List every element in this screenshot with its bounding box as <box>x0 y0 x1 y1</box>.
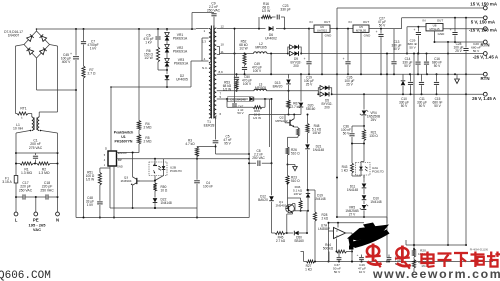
wire bias rail down <box>270 99 272 163</box>
wire L rail <box>15 152 17 165</box>
capacitor C16 <box>424 54 442 75</box>
diode D6 <box>265 26 277 40</box>
inductor L1 <box>13 117 41 131</box>
svg-text:UF4005: UF4005 <box>176 78 188 82</box>
svg-text:1/2 W: 1/2 W <box>223 88 231 92</box>
resistor R22 <box>412 257 429 272</box>
resistor R51 <box>86 168 102 185</box>
svg-text:1 kV: 1 kV <box>87 203 94 207</box>
svg-text:RT1: RT1 <box>20 107 26 111</box>
wire feedback bottom link <box>329 217 388 224</box>
resistor R27 <box>304 260 315 271</box>
svg-text:N.C.: N.C. <box>202 66 208 70</box>
capacitor C1 <box>16 139 58 164</box>
wire fb node <box>301 252 304 262</box>
svg-text:IN: IN <box>349 20 352 24</box>
svg-text:PI-4064-011106: PI-4064-011106 <box>470 248 489 252</box>
capacitor C15 <box>433 74 443 108</box>
capacitor C48 <box>86 185 103 219</box>
terminal 5V <box>471 16 496 24</box>
svg-text:2N5401: 2N5401 <box>276 203 287 207</box>
wire U2B led diag <box>154 176 164 182</box>
svg-text:1N4148: 1N4148 <box>347 188 358 192</box>
svg-text:D3 1N4148: D3 1N4148 <box>230 98 246 102</box>
svg-text:2.7 Ω: 2.7 Ω <box>88 72 96 76</box>
svg-text:8,9: 8,9 <box>219 70 224 74</box>
wire U5 gnd <box>360 32 362 74</box>
resistor R4 <box>137 121 152 131</box>
wire C45 down <box>75 90 77 218</box>
gnd stub <box>287 155 298 171</box>
thermistor RT1 <box>17 107 28 121</box>
wire D9 join <box>300 53 302 55</box>
svg-text:100 V: 100 V <box>243 82 252 86</box>
TVS VR1 <box>165 29 188 41</box>
svg-text:50 V: 50 V <box>409 45 416 49</box>
wire -15V out <box>443 28 483 30</box>
svg-text:2 MΩ: 2 MΩ <box>144 140 152 144</box>
capacitor C13 <box>391 29 401 75</box>
svg-text:1 kV: 1 kV <box>90 47 97 51</box>
capacitor C8 <box>248 149 273 166</box>
svg-text:RTN: RTN <box>480 42 489 47</box>
wire Q1 emitter <box>286 212 293 234</box>
svg-text:+: + <box>343 57 345 61</box>
svg-text:25V: 25V <box>371 118 378 122</box>
svg-text:330 pF: 330 pF <box>280 8 290 12</box>
ground arrow <box>455 74 460 83</box>
svg-text:50 V: 50 V <box>343 132 350 136</box>
svg-text:50 V: 50 V <box>401 104 408 108</box>
terminal PE <box>33 212 39 222</box>
opto U2A led <box>359 164 367 173</box>
svg-text:10: 10 <box>221 42 225 46</box>
resistor R26 <box>286 147 300 156</box>
svg-text:5 V, 150 mA: 5 V, 150 mA <box>471 19 496 24</box>
svg-text:N: N <box>56 218 59 223</box>
svg-text:500 kΩ: 500 kΩ <box>323 247 334 251</box>
svg-text:PC817D: PC817D <box>170 169 182 173</box>
svg-text:UF4002: UF4002 <box>265 37 277 41</box>
svg-text:1.3 MΩ: 1.3 MΩ <box>21 171 32 175</box>
bridge rectifier D7-D9 D16-D17 <box>4 30 49 58</box>
wire bridge top to rail <box>36 28 38 31</box>
TVS VR3 <box>165 53 189 72</box>
svg-text:250 VAC: 250 VAC <box>207 9 221 13</box>
resistor R2 <box>33 162 58 175</box>
resistor R67 <box>287 91 301 115</box>
svg-text:U1: U1 <box>121 135 126 139</box>
capacitor C36 <box>341 125 364 144</box>
svg-text:MPI305: MPI305 <box>255 46 267 50</box>
svg-text:50 V: 50 V <box>419 104 426 108</box>
svg-text:95 V: 95 V <box>224 142 231 146</box>
svg-text:250 VAC: 250 VAC <box>40 188 54 192</box>
svg-text:1/8 W: 1/8 W <box>312 131 320 135</box>
resistor R21 <box>362 126 378 145</box>
watermark char zai <box>471 252 485 268</box>
capacitor C46 <box>357 253 366 274</box>
svg-text:-15 V, 150 mA: -15 V, 150 mA <box>469 28 498 33</box>
resistor R1 <box>16 162 33 175</box>
svg-text:25 V: 25 V <box>346 83 353 87</box>
svg-text:VAC: VAC <box>33 227 41 232</box>
wire L column <box>15 164 17 168</box>
resistor R46 <box>287 183 303 212</box>
wire pin10 stub <box>217 47 220 54</box>
PeakSwitch U1 box <box>108 151 117 166</box>
resistor R50 <box>153 176 168 193</box>
wire D19 R28 node <box>308 190 315 212</box>
capacitor C17 <box>19 181 33 200</box>
svg-text:1N4007: 1N4007 <box>8 34 20 38</box>
terminal N <box>56 212 60 222</box>
diode D9b <box>290 51 303 68</box>
svg-text:400 V: 400 V <box>62 60 71 64</box>
svg-text:50 V: 50 V <box>379 24 386 28</box>
capacitor C47 <box>232 28 237 108</box>
wire pin11 stub <box>217 53 254 55</box>
svg-text:10 mH: 10 mH <box>13 127 24 131</box>
watermark char xia <box>454 253 468 267</box>
svg-text:+: + <box>413 28 415 32</box>
wire L2 to D9 <box>267 53 289 55</box>
svg-text:100 V: 100 V <box>253 69 262 73</box>
svg-text:200: 200 <box>324 106 330 110</box>
wire U1 BP <box>117 158 251 160</box>
svg-text:10 Ω: 10 Ω <box>161 188 168 192</box>
wire x387 return <box>386 53 388 263</box>
zener VR5 <box>345 205 368 219</box>
svg-text:3.15 A: 3.15 A <box>2 180 12 184</box>
svg-text:-26 V, 1.45 A: -26 V, 1.45 A <box>473 54 499 59</box>
wire opamp supply <box>337 223 339 228</box>
wire bias out <box>265 98 273 100</box>
wire pin1 <box>196 29 209 33</box>
diode D11 <box>347 184 366 195</box>
wire N rail <box>57 152 59 165</box>
wire U1 source <box>110 166 115 219</box>
wire bottom bus <box>314 261 493 263</box>
transistor Q2 <box>275 115 294 128</box>
svg-text:Q606.COM: Q606.COM <box>0 270 51 281</box>
resistor R23 <box>286 165 300 184</box>
wire RT1 to bridge left <box>16 45 25 114</box>
pin 2,3 stub <box>202 38 209 61</box>
pin 4 stub <box>191 57 209 70</box>
diode D20 <box>299 74 316 114</box>
wire N terminal up <box>57 197 59 212</box>
svg-text:D: D <box>105 147 107 151</box>
svg-text:M79L15: M79L15 <box>429 27 440 31</box>
wire U6 gnd <box>321 32 323 74</box>
op-amp U7A <box>318 224 345 239</box>
optocoupler U2B box <box>149 162 182 176</box>
transistor Q3 <box>121 176 155 186</box>
svg-text:www.eeworm.com: www.eeworm.com <box>372 267 500 281</box>
svg-text:50 V: 50 V <box>404 64 411 68</box>
U1 pin labels <box>104 147 127 169</box>
svg-text:1N4148: 1N4148 <box>161 201 172 205</box>
capacitor C29 <box>408 26 422 55</box>
resistor R5 <box>137 135 152 153</box>
diode D13 <box>273 74 291 91</box>
diode D9a <box>288 45 301 54</box>
svg-text:275 VAC: 275 VAC <box>29 146 43 150</box>
svg-text:1/2 W: 1/2 W <box>144 56 153 60</box>
label D21 <box>313 145 324 153</box>
wire y245 link <box>406 240 466 246</box>
wire R27 link <box>328 252 330 262</box>
wire U2B collector up <box>154 159 156 162</box>
wire Q3 emitter <box>132 185 134 209</box>
diode D22 <box>153 191 172 209</box>
svg-text:50 V: 50 V <box>334 270 341 274</box>
svg-text:MPSA42: MPSA42 <box>275 119 287 123</box>
terminal RTN2 <box>480 72 489 81</box>
svg-text:UA7815: UA7815 <box>317 29 328 33</box>
terminal 15V <box>470 2 498 10</box>
regulator U5 M78L05 <box>349 20 372 38</box>
capacitor C26 <box>343 29 355 87</box>
TVS VR2 <box>165 41 188 54</box>
svg-text:50 V: 50 V <box>434 104 441 108</box>
resistor R3 <box>185 139 198 159</box>
wire R45 D50 <box>285 232 293 234</box>
capacitor C5 <box>212 116 231 154</box>
capacitor C11 <box>417 74 427 108</box>
watermark char zi <box>438 254 452 268</box>
svg-text:250 VAC: 250 VAC <box>19 188 33 192</box>
inductor L3 <box>234 83 319 96</box>
svg-text:2N3904: 2N3904 <box>121 179 132 183</box>
svg-text:PC817D: PC817D <box>372 169 384 173</box>
watermark black bug logo <box>347 223 390 250</box>
resistor R69 <box>235 99 266 120</box>
wire Q2 collector <box>293 115 295 119</box>
capacitor C18 <box>40 181 54 200</box>
snubber C23 <box>272 4 291 29</box>
svg-text:SB160: SB160 <box>294 239 304 243</box>
svg-text:50 V: 50 V <box>393 47 400 51</box>
wire U6 out <box>330 28 353 30</box>
wire drain to xfmr <box>190 61 192 87</box>
capacitor C14 <box>403 54 421 75</box>
wire Q2 emitter <box>288 127 300 147</box>
wire opamp out <box>346 233 354 253</box>
capacitor C4 <box>194 159 213 208</box>
svg-text:250 VAC: 250 VAC <box>252 156 265 160</box>
wire sec 15V rail <box>217 28 310 30</box>
wire pin7 L3 <box>217 90 238 92</box>
svg-text:+: + <box>357 253 359 257</box>
label 195-265 VAC <box>29 223 47 233</box>
capacitor C37 <box>333 252 342 273</box>
svg-text:4.7 kΩ: 4.7 kΩ <box>185 142 195 146</box>
terminal -26V <box>473 52 499 60</box>
svg-text:GND: GND <box>117 165 123 169</box>
svg-text:OUT: OUT <box>437 18 444 22</box>
svg-text:P6KE91A: P6KE91A <box>173 50 188 54</box>
capacitor C41 <box>386 255 402 266</box>
diode D3 <box>227 96 267 101</box>
svg-text:GND: GND <box>325 34 333 38</box>
opto U2B transistor <box>153 162 161 174</box>
diode D2 <box>165 70 188 88</box>
svg-text:50 V: 50 V <box>473 49 480 53</box>
svg-text:GND: GND <box>364 34 372 38</box>
regulator U6 UA7815 <box>309 20 332 38</box>
capacitor C6 <box>143 29 161 47</box>
capacitor C28 <box>450 18 464 53</box>
svg-text:1N4148: 1N4148 <box>314 197 325 201</box>
svg-text:P6KE91A: P6KE91A <box>173 37 188 41</box>
wire choke left top <box>28 114 32 118</box>
wire R4-R5 <box>138 130 140 135</box>
svg-text:OUT: OUT <box>324 20 331 24</box>
wire N column <box>57 164 59 198</box>
label PeakSwitch U1 <box>114 131 133 144</box>
svg-text:1N4148: 1N4148 <box>370 200 381 204</box>
wire Q1 collector <box>293 204 310 212</box>
wire x337 supply <box>336 29 338 218</box>
wire 15V tap <box>337 8 483 29</box>
svg-text:12: 12 <box>221 25 225 29</box>
svg-text:2 kΩ: 2 kΩ <box>322 217 329 221</box>
svg-text:2,3: 2,3 <box>202 39 207 43</box>
svg-text:+: + <box>450 28 452 32</box>
wire RTN bus <box>217 73 484 75</box>
resistor R53 <box>223 80 238 91</box>
svg-text:SB160: SB160 <box>306 107 316 111</box>
svg-text:27 V: 27 V <box>349 213 356 217</box>
watermark Q606.COM <box>0 270 51 281</box>
resistor R45 <box>275 232 286 244</box>
optocoupler U2A box <box>356 163 385 176</box>
wire L up to choke <box>16 131 30 154</box>
terminal RTN1 <box>480 40 489 47</box>
svg-text:EN/UV: EN/UV <box>118 151 127 155</box>
svg-text:2 MΩ: 2 MΩ <box>144 126 152 130</box>
diode D19 <box>306 189 326 211</box>
capacitor C45 <box>61 29 79 90</box>
svg-text:510 Ω: 510 Ω <box>291 152 300 156</box>
diode D50 <box>294 231 308 243</box>
resistor R48 <box>306 114 322 136</box>
capacitor C42 <box>227 99 244 115</box>
wire RTN1 line <box>435 41 484 43</box>
transistor Q1 <box>276 200 295 213</box>
terminal 26V <box>472 92 497 101</box>
svg-text:P6KE91A: P6KE91A <box>174 62 189 66</box>
svg-text:10 V: 10 V <box>359 270 366 274</box>
wire U1 ENUV <box>117 152 140 154</box>
watermark char zhan <box>487 252 500 267</box>
svg-text:1/2 W: 1/2 W <box>239 47 247 51</box>
svg-text:1 kV: 1 kV <box>145 41 152 45</box>
wire D5 join <box>331 93 333 95</box>
fuse F1 <box>2 167 18 197</box>
svg-text:BAV20: BAV20 <box>273 85 283 89</box>
svg-text:MPI305: MPI305 <box>255 86 266 90</box>
wire x448 column <box>447 42 449 246</box>
wire x466 column <box>463 18 469 246</box>
transformer T1 <box>204 26 217 128</box>
regulator U7 M79L15 <box>423 18 446 36</box>
wire x307 down <box>306 211 308 233</box>
svg-text:26 V, 1.45 A: 26 V, 1.45 A <box>472 96 497 101</box>
wire D12 to R45 <box>272 232 276 235</box>
wire pin5 <box>217 98 228 100</box>
wire primary gnd bus <box>76 217 249 219</box>
wire bottom to C45 node <box>37 89 78 91</box>
capacitor C19 <box>304 29 314 87</box>
inductor L2 <box>254 42 268 54</box>
svg-text:1 kΩ: 1 kΩ <box>305 267 312 271</box>
capacitor C7 <box>81 29 99 66</box>
wire x414 column <box>413 54 415 250</box>
wire bridge bottom <box>36 58 38 90</box>
wire R3 tap <box>197 146 216 149</box>
wire U5 out rail <box>369 28 402 30</box>
svg-text:1.3 MΩ: 1.3 MΩ <box>38 171 49 175</box>
svg-text:100 nF: 100 nF <box>203 185 213 189</box>
wire X-cap row <box>15 196 59 198</box>
svg-text:510 Ω: 510 Ω <box>291 179 300 183</box>
diode D5a <box>318 86 331 95</box>
resistor R7 <box>82 66 96 78</box>
diode D10 <box>362 195 382 204</box>
watermark url eeworm <box>372 267 500 281</box>
svg-text:1/2 W: 1/2 W <box>262 9 271 13</box>
terminal -15V <box>469 27 498 33</box>
wire VR4 node down <box>363 175 365 178</box>
svg-text:L: L <box>15 218 18 223</box>
svg-text:PeakSwitch: PeakSwitch <box>114 131 133 135</box>
svg-text:1 kΩ: 1 kΩ <box>341 169 348 173</box>
wire gnd bus elbow <box>248 154 250 218</box>
wire Q3 collector <box>132 152 134 178</box>
svg-text:1N4148: 1N4148 <box>313 148 324 152</box>
svg-text:1/2 W: 1/2 W <box>253 116 261 120</box>
diode D14 clamp <box>401 74 406 94</box>
resistor R20 <box>412 248 428 257</box>
svg-text:PKS607YN: PKS607YN <box>115 139 133 143</box>
wire choke right top <box>39 45 57 118</box>
wire bias elbow down <box>249 114 301 155</box>
svg-text:IN: IN <box>423 18 426 22</box>
wire R7 down <box>83 78 85 218</box>
svg-text:GND: GND <box>438 32 446 36</box>
opto U2B led <box>162 159 166 176</box>
wire PE terminal up <box>35 197 37 212</box>
diode D12 <box>258 163 274 232</box>
svg-text:RTN: RTN <box>480 76 489 81</box>
wire U7 gnd <box>434 31 436 43</box>
svg-text:OUT: OUT <box>363 20 370 24</box>
watermark red bug char 1 <box>365 244 381 268</box>
svg-text:25 V: 25 V <box>455 49 462 53</box>
svg-text:+: + <box>376 30 378 34</box>
snubber R16 <box>259 2 272 29</box>
svg-text:1/2 W: 1/2 W <box>86 178 94 182</box>
wire -26V line <box>301 53 483 55</box>
zener VR4 <box>360 94 380 127</box>
wire control gnd bus <box>110 207 198 219</box>
svg-text:15 V, 150 mA: 15 V, 150 mA <box>470 2 498 7</box>
svg-text:M78L05: M78L05 <box>356 29 367 33</box>
svg-text:BAV20: BAV20 <box>258 198 268 202</box>
